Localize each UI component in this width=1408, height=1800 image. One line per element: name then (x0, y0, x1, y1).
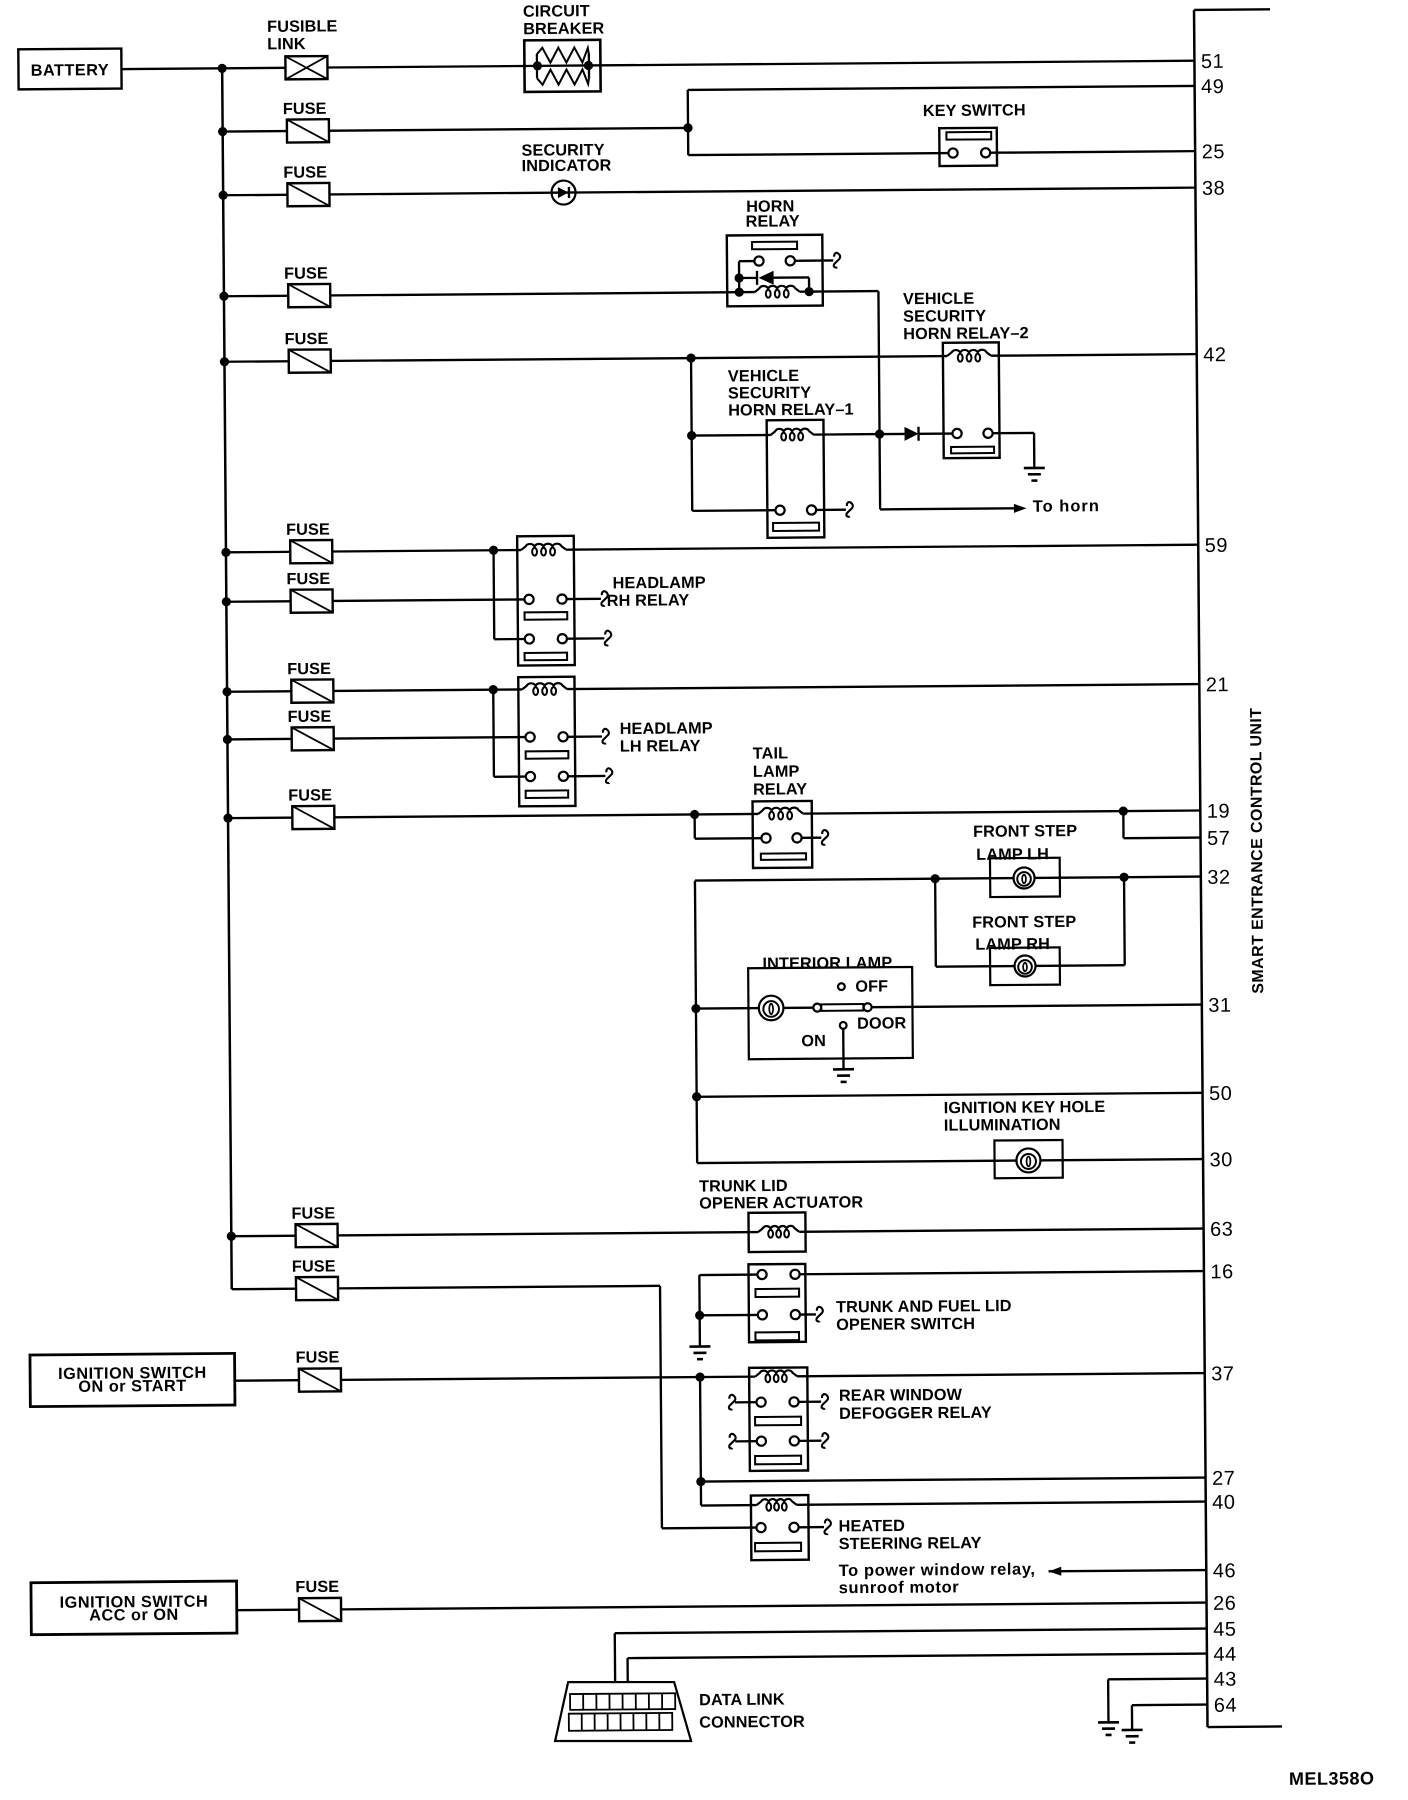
svg-text:FUSE: FUSE (286, 521, 330, 539)
svg-text:ACC or ON: ACC or ON (89, 1606, 179, 1625)
svg-text:FUSE: FUSE (296, 1348, 340, 1366)
svg-text:44: 44 (1213, 1644, 1236, 1666)
svg-text:ILLUMINATION: ILLUMINATION (944, 1116, 1061, 1135)
svg-text:STEERING RELAY: STEERING RELAY (839, 1534, 982, 1553)
svg-text:32: 32 (1207, 867, 1230, 889)
svg-text:TRUNK AND FUEL LID: TRUNK AND FUEL LID (836, 1297, 1012, 1316)
svg-text:sunroof motor: sunroof motor (839, 1578, 960, 1597)
svg-text:21: 21 (1206, 674, 1229, 696)
svg-text:TAIL: TAIL (753, 744, 789, 762)
svg-text:HEADLAMP: HEADLAMP (613, 574, 706, 593)
svg-text:TRUNK LID: TRUNK LID (699, 1177, 788, 1196)
svg-text:45: 45 (1213, 1619, 1236, 1641)
svg-text:INTERIOR LAMP: INTERIOR LAMP (762, 954, 892, 973)
svg-text:SECURITY: SECURITY (903, 307, 986, 326)
svg-text:FUSE: FUSE (288, 786, 332, 804)
svg-text:ON: ON (801, 1032, 826, 1050)
svg-text:RH RELAY: RH RELAY (607, 591, 690, 610)
svg-text:FUSE: FUSE (285, 330, 329, 348)
svg-text:HORN RELAY–1: HORN RELAY–1 (728, 401, 854, 420)
svg-text:25: 25 (1202, 141, 1225, 163)
svg-text:51: 51 (1201, 51, 1224, 73)
svg-text:26: 26 (1213, 1593, 1236, 1615)
svg-text:30: 30 (1209, 1149, 1232, 1171)
svg-text:FUSE: FUSE (287, 708, 331, 726)
svg-text:FUSE: FUSE (287, 660, 331, 678)
svg-text:27: 27 (1212, 1468, 1235, 1490)
svg-text:BREAKER: BREAKER (523, 20, 604, 39)
svg-text:FRONT STEP: FRONT STEP (973, 822, 1077, 841)
svg-text:To horn: To horn (1033, 497, 1100, 516)
svg-text:To power window relay,: To power window relay, (839, 1560, 1036, 1580)
svg-text:LAMP RH: LAMP RH (975, 935, 1050, 954)
svg-text:49: 49 (1201, 76, 1224, 98)
svg-text:VEHICLE: VEHICLE (728, 367, 799, 386)
svg-text:FUSE: FUSE (283, 100, 327, 118)
svg-text:VEHICLE: VEHICLE (903, 290, 974, 309)
svg-text:FUSE: FUSE (286, 570, 330, 588)
svg-text:CONNECTOR: CONNECTOR (699, 1713, 805, 1732)
svg-text:16: 16 (1210, 1261, 1233, 1283)
svg-text:OPENER ACTUATOR: OPENER ACTUATOR (699, 1193, 863, 1212)
svg-text:64: 64 (1214, 1695, 1237, 1717)
svg-text:19: 19 (1207, 801, 1230, 823)
svg-text:38: 38 (1202, 178, 1225, 200)
svg-text:BATTERY: BATTERY (31, 61, 110, 80)
svg-text:FUSIBLE: FUSIBLE (267, 17, 338, 36)
svg-text:FRONT STEP: FRONT STEP (972, 913, 1076, 932)
svg-text:DEFOGGER RELAY: DEFOGGER RELAY (839, 1404, 992, 1423)
svg-text:31: 31 (1208, 995, 1231, 1017)
svg-text:SECURITY: SECURITY (728, 384, 811, 403)
svg-text:RELAY: RELAY (746, 212, 800, 230)
svg-text:46: 46 (1213, 1560, 1236, 1582)
svg-text:IGNITION KEY HOLE: IGNITION KEY HOLE (944, 1098, 1106, 1117)
svg-text:KEY SWITCH: KEY SWITCH (923, 101, 1026, 120)
svg-text:HEATED: HEATED (839, 1517, 906, 1536)
svg-text:DOOR: DOOR (857, 1014, 907, 1032)
svg-text:LINK: LINK (267, 35, 306, 53)
svg-text:INDICATOR: INDICATOR (522, 157, 612, 176)
svg-text:ON or START: ON or START (78, 1377, 186, 1396)
svg-text:RELAY: RELAY (753, 780, 807, 798)
svg-text:43: 43 (1214, 1669, 1237, 1691)
svg-text:42: 42 (1203, 344, 1226, 366)
svg-text:HORN RELAY–2: HORN RELAY–2 (903, 324, 1029, 343)
svg-text:FUSE: FUSE (295, 1578, 339, 1596)
svg-text:FUSE: FUSE (283, 163, 327, 181)
svg-text:57: 57 (1207, 828, 1230, 850)
svg-text:FUSE: FUSE (292, 1257, 336, 1275)
svg-text:OFF: OFF (855, 977, 888, 995)
svg-text:50: 50 (1209, 1083, 1232, 1105)
svg-text:HEADLAMP: HEADLAMP (620, 719, 713, 738)
svg-text:DATA LINK: DATA LINK (699, 1691, 785, 1710)
svg-text:CIRCUIT: CIRCUIT (523, 2, 590, 21)
svg-text:40: 40 (1212, 1492, 1235, 1514)
svg-text:MEL358O: MEL358O (1289, 1768, 1375, 1789)
svg-text:LH RELAY: LH RELAY (620, 737, 701, 756)
svg-text:63: 63 (1210, 1219, 1233, 1241)
svg-text:FUSE: FUSE (284, 264, 328, 282)
svg-text:37: 37 (1211, 1363, 1234, 1385)
svg-text:59: 59 (1205, 535, 1228, 557)
svg-text:LAMP LH: LAMP LH (976, 845, 1049, 864)
svg-text:SMART ENTRANCE CONTROL UNIT: SMART ENTRANCE CONTROL UNIT (1248, 708, 1267, 994)
svg-text:FUSE: FUSE (291, 1204, 335, 1222)
svg-text:LAMP: LAMP (753, 763, 800, 781)
svg-text:REAR WINDOW: REAR WINDOW (839, 1386, 963, 1405)
svg-text:OPENER SWITCH: OPENER SWITCH (836, 1315, 975, 1334)
